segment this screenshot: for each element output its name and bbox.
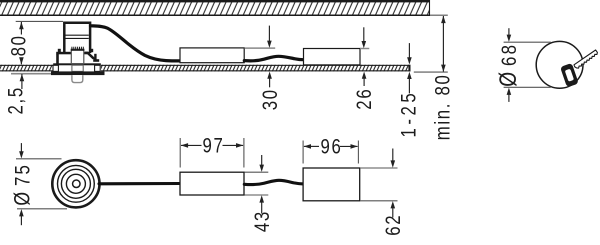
dimension 1-25 (ceiling thickness): [398, 43, 421, 137]
svg-text:1-25: 1-25: [398, 90, 421, 138]
svg-text:Ø 75: Ø 75: [11, 163, 35, 206]
suspended ceiling panel right piece (hatched): [101, 65, 411, 72]
svg-text:62: 62: [383, 214, 406, 236]
saw handle: [560, 63, 579, 87]
dimension Ø68 (cutout diameter): [494, 28, 551, 102]
dimension 30 (box1 recess height): [245, 26, 283, 111]
luminaire face, plan view (concentric rings): [52, 160, 99, 207]
svg-text:96: 96: [321, 136, 343, 159]
cable between boxes (side view): [244, 56, 303, 61]
svg-text:43: 43: [252, 210, 275, 232]
dimension min. 80 (recess depth): [414, 15, 455, 140]
lamp barrel through ceiling: [72, 65, 83, 71]
svg-text:30: 30: [260, 88, 283, 110]
svg-text:Ø 68: Ø 68: [494, 43, 522, 87]
right spring clip (diagonal): [84, 49, 99, 62]
dimension 97 (box1 length): [180, 135, 244, 168]
dimension 96 (box2 length): [303, 136, 358, 164]
downlight housing (side view): [64, 23, 90, 53]
clamp ring shoulder on ceiling: [53, 63, 101, 65]
cable luminaire to box1 (plan): [99, 182, 180, 185]
svg-text:min. 80: min. 80: [432, 73, 455, 140]
svg-text:26: 26: [354, 88, 377, 110]
connector box 1 (side view): [180, 48, 244, 63]
keyhole saw blade: [574, 50, 597, 68]
left spring clamp foot: [53, 65, 58, 71]
supply cable from housing to connector box (side view): [91, 26, 181, 61]
right spring clamp foot: [95, 65, 101, 71]
cable between boxes (plan): [244, 180, 303, 184]
driver box 2 (side view): [304, 49, 361, 65]
dimension 2,5 (trim protrusion): [5, 74, 51, 115]
svg-text:80: 80: [8, 34, 31, 56]
trim ring flange below ceiling: [51, 71, 105, 75]
dimension 62 (box2 width): [360, 149, 405, 236]
dimension 43 (box1 width): [245, 155, 275, 232]
ceiling slab (structural, hatched): [0, 0, 430, 16]
driver box 2 (plan view): [303, 168, 360, 201]
svg-text:97: 97: [203, 135, 225, 158]
housing left mounting step: [56, 49, 71, 64]
dimension 26 (box2 recess height): [354, 27, 377, 109]
connector box 1 (plan view): [180, 172, 244, 195]
dimension Ø75 (luminaire diameter): [11, 143, 67, 225]
suspended ceiling panel left piece (hatched): [0, 65, 54, 72]
dimension 80 (housing height, left): [8, 21, 63, 64]
terminal block with spring contacts: [71, 47, 85, 64]
lamp tube protruding below trim: [72, 75, 83, 83]
ceiling cutout circle detail: [536, 41, 583, 88]
svg-text:2,5: 2,5: [5, 86, 28, 114]
